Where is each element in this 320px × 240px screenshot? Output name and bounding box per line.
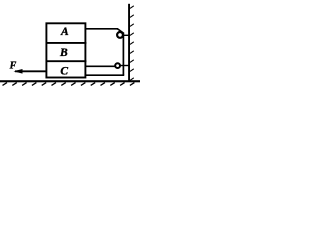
upper pulley bracket to wall: [121, 34, 130, 36]
svg-text:A: A: [60, 26, 69, 38]
svg-text:C: C: [60, 65, 68, 77]
ground: [0, 80, 140, 82]
svg-text:F: F: [9, 60, 17, 71]
svg-text:B: B: [59, 47, 68, 59]
ground hatching: [3, 83, 135, 86]
string from block A to upper pulley: [85, 28, 118, 30]
upper pulley: [117, 32, 123, 38]
vertical string from upper pulley down to bottom string: [122, 33, 124, 76]
string bend over upper pulley: [118, 29, 124, 33]
bottom string from block C to vertical string: [86, 74, 125, 76]
middle string from block to lower pulley: [85, 65, 116, 67]
lower pulley bracket to wall: [119, 65, 130, 67]
wall hatching: [130, 6, 134, 81]
divider between block B and block C: [46, 60, 87, 62]
wall: [128, 4, 130, 81]
block stack outline: [46, 23, 85, 77]
lower pulley: [115, 63, 120, 68]
divider between block A and block B: [46, 42, 87, 44]
force arrow F shaft: [15, 70, 46, 72]
force arrow F head: [14, 69, 23, 74]
